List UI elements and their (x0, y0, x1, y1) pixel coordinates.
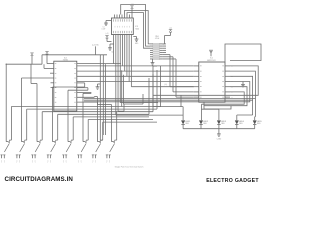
svg-text:4.7Kx8: 4.7Kx8 (155, 38, 160, 40)
svg-text:o: o (66, 160, 67, 162)
svg-text:o: o (35, 160, 36, 162)
svg-text:RN1: RN1 (155, 36, 158, 38)
svg-text:o: o (47, 160, 48, 162)
svg-text:7404: 7404 (135, 28, 139, 30)
svg-text:Single Pole Two Terminal Switc: Single Pole Two Terminal Switch (115, 166, 144, 169)
svg-text:C2: C2 (111, 52, 113, 54)
svg-text:0.1uF: 0.1uF (102, 28, 106, 30)
svg-text:IC2: IC2 (64, 58, 67, 60)
svg-text:o: o (78, 160, 79, 162)
svg-text:ELECTRO GADGET: ELECTRO GADGET (206, 178, 259, 184)
svg-text:CIRCUITDIAGRAMS.IN: CIRCUITDIAGRAMS.IN (5, 176, 74, 183)
svg-text:(+5 V): (+5 V) (92, 45, 98, 47)
svg-text:o: o (109, 160, 110, 162)
svg-text:o: o (63, 160, 64, 162)
svg-text:o: o (16, 160, 17, 162)
svg-text:o: o (50, 160, 51, 162)
svg-text:o: o (1, 160, 2, 162)
svg-text:o: o (92, 160, 93, 162)
svg-text:o: o (4, 160, 5, 162)
svg-text:o: o (19, 160, 20, 162)
svg-text:o: o (81, 160, 82, 162)
svg-text:C-GND: C-GND (217, 138, 222, 140)
svg-text:o: o (32, 160, 33, 162)
svg-text:74C922: 74C922 (63, 60, 69, 62)
svg-text:o: o (95, 160, 96, 162)
svg-text:C1: C1 (103, 27, 105, 29)
svg-text:IC1: IC1 (210, 58, 213, 60)
svg-text:o: o (106, 160, 107, 162)
